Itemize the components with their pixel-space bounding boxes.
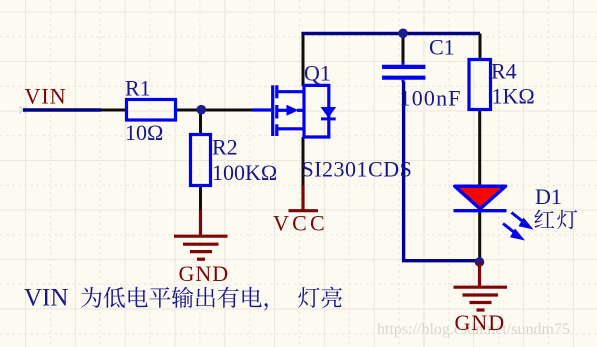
- LED D1: [455, 186, 506, 209]
- capacitor C1: [382, 62, 425, 82]
- resistor R4: [469, 60, 491, 110]
- svg-text:SI2301CDS: SI2301CDS: [302, 157, 413, 182]
- wire top rail: [301, 32, 480, 35]
- wire C1 top pin: [402, 35, 405, 62]
- D1 cathode bar: [454, 209, 507, 212]
- ground symbol left: [174, 210, 228, 259]
- D1 light arrows: [503, 213, 534, 241]
- svg-text:Q1: Q1: [304, 61, 331, 86]
- svg-text:100nF: 100nF: [400, 86, 462, 111]
- wire R4 top pin: [479, 34, 482, 61]
- svg-text:10Ω: 10Ω: [125, 120, 163, 145]
- svg-text:VIN: VIN: [24, 285, 68, 312]
- svg-text:GND: GND: [179, 261, 230, 286]
- svg-text:D1: D1: [535, 184, 562, 209]
- transistor Q1 (P-MOSFET): [252, 85, 329, 137]
- wire Q1 source pin (top): [302, 33, 305, 87]
- svg-text:R2: R2: [212, 135, 238, 160]
- resistor R2: [191, 135, 211, 186]
- svg-text:GND: GND: [455, 310, 506, 335]
- svg-text:100KΩ: 100KΩ: [212, 160, 277, 185]
- node junction D1/C1/GND: [475, 257, 485, 267]
- wire Q1 drain pin (bottom): [302, 137, 305, 186]
- svg-text:R4: R4: [491, 59, 517, 84]
- svg-text:VCC: VCC: [273, 211, 328, 236]
- svg-text:C1: C1: [429, 35, 455, 60]
- wire D1 cathode to junction: [478, 211, 481, 263]
- Q1 body diode: [322, 108, 335, 117]
- wire R1 left pin segment: [101, 109, 127, 112]
- wire R2 top pin: [199, 110, 202, 135]
- svg-text:VIN: VIN: [25, 84, 67, 109]
- node junction R1/R2/gate: [197, 105, 207, 115]
- resistor R1: [127, 100, 176, 121]
- node junction rail/C1: [398, 29, 408, 39]
- Q1 arrow (source): [287, 105, 299, 116]
- ground symbol right: [454, 262, 508, 310]
- dangling wire end cross: [20, 107, 27, 114]
- wire C1 bottom to gnd rail: [404, 82, 477, 261]
- power port VCC: [289, 185, 319, 211]
- svg-text:R1: R1: [125, 76, 151, 101]
- wire R4 bottom pin / D1 anode: [478, 109, 481, 187]
- wire VIN net: [23, 108, 101, 111]
- value 红灯: [534, 210, 554, 228]
- svg-text:1KΩ: 1KΩ: [492, 84, 535, 109]
- wire R2 bottom pin: [199, 185, 202, 211]
- wire R1 right pin to node: [175, 109, 252, 112]
